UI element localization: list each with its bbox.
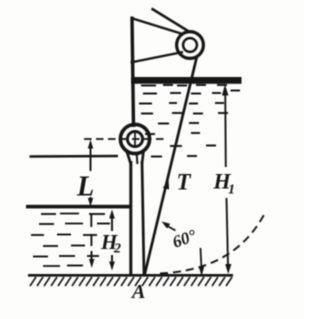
upper ledge (right wall top) (131, 77, 242, 84)
H2 dimension line upper (111, 215, 113, 231)
L extension dashed below surface (90, 213, 92, 260)
H2 dimension arrow up (109, 210, 115, 219)
L dimension line upper (90, 146, 92, 171)
pivot eye inner ring (127, 131, 142, 146)
T force arrowhead (163, 179, 169, 190)
pulley U-top outer ring (177, 32, 204, 59)
upper water dashes row8 (151, 155, 197, 158)
leader from 60 to cable (167, 226, 176, 231)
upper water dashes row7 (170, 145, 216, 148)
upper water dashes row3 (139, 102, 224, 105)
L dimension line lower (90, 197, 92, 201)
H1 dimension line lower (227, 198, 229, 266)
L extension arrow down at ground (89, 259, 94, 268)
pulley U-top inner ring (183, 38, 197, 52)
lower water surface (left) (26, 205, 132, 209)
svg-text:A: A (130, 281, 145, 303)
H1 dimension arrow down (225, 264, 231, 274)
upper water dashes row4 (141, 112, 228, 115)
cable T main run from pulley to A (145, 56, 198, 275)
left water dashes row4 (43, 245, 85, 248)
leader arrowhead at cable (162, 222, 171, 229)
left water dashes row5 (33, 255, 99, 258)
dashed swing arc (160, 211, 266, 274)
H2 dimension arrow down (109, 262, 115, 271)
upper water surface dashes row1 (141, 84, 227, 87)
upper water dashes row6 (145, 133, 200, 134)
left water dashes row3 (31, 234, 97, 237)
H1 dimension line upper (224, 90, 227, 167)
left water dashes row6 (43, 265, 83, 268)
mast upper segment (132, 17, 134, 128)
pivot centerline dashed (84, 138, 164, 140)
cable over pulley (upper run) (152, 9, 191, 33)
pivot eye center vertical tick (134, 133, 136, 146)
upper water dashes row5 (158, 122, 199, 125)
surface under-dashes (41, 213, 105, 216)
svg-text:1: 1 (228, 183, 235, 198)
L dimension arrow down (88, 198, 93, 207)
ground line (28, 274, 233, 277)
H2 dimension line lower (111, 255, 113, 263)
bracket top edge (131, 18, 181, 34)
svg-text:T: T (177, 170, 192, 195)
leader arrowhead at ground (199, 267, 204, 277)
left water dashes row2 (39, 223, 110, 226)
middle step line (left wall top) (30, 155, 119, 158)
eye yoke left (127, 151, 131, 165)
pivot eye outer ring (120, 124, 149, 153)
ground hatching (30, 277, 232, 286)
bracket bottom edge (131, 52, 184, 63)
eye yoke right (142, 151, 144, 164)
L dimension arrow up (88, 140, 93, 149)
pole left edge (129, 161, 132, 275)
H1 dimension arrow up (222, 85, 229, 96)
svg-text:2: 2 (113, 242, 121, 257)
pole right edge (142, 161, 144, 275)
upper water dashes row2 (143, 91, 240, 94)
leader from 60 to ground (200, 248, 203, 268)
